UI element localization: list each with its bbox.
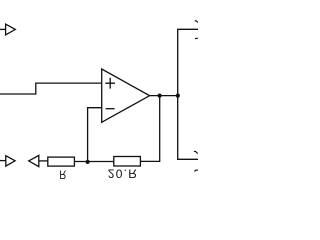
connector box (right, cut off)	[178, 29, 198, 159]
wire inverting input / feedback riser	[88, 108, 102, 162]
op-amp U1	[102, 69, 150, 122]
op-amp plus sign	[105, 78, 115, 89]
junction dot	[158, 94, 162, 98]
arrow A1 (left-pointing)	[29, 155, 39, 166]
wire	[39, 160, 48, 162]
svg-text:R: R	[59, 167, 66, 180]
wire	[0, 160, 6, 162]
port IN2 (bottom-left arrow)	[6, 156, 15, 166]
op-amp minus sign	[106, 108, 115, 110]
svg-text:20.R: 20.R	[108, 166, 139, 180]
wire feedback from output	[140, 96, 159, 162]
wire to non-inverting input	[0, 83, 101, 94]
wire output	[150, 95, 178, 97]
junction dot	[176, 94, 180, 98]
mark M1	[195, 21, 198, 23]
wire	[74, 161, 113, 163]
mark M3	[194, 151, 198, 153]
resistor R	[48, 157, 75, 166]
port IN1 (top-left arrow)	[6, 24, 16, 35]
mark M4	[195, 170, 199, 171]
resistor 20.R	[114, 157, 141, 167]
wire	[0, 28, 6, 30]
junction dot	[86, 160, 90, 164]
mark M2	[195, 37, 198, 40]
